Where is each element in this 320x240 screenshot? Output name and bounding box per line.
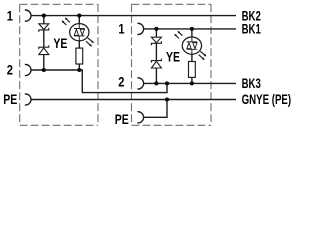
LED emission arrows bottom-right box A xyxy=(86,38,94,47)
wire net BK1 (box B pin 1 to BK1) xyxy=(144,28,236,30)
wire LED branch box A xyxy=(78,16,80,70)
wire box B PE run joining GNYE xyxy=(144,100,167,118)
wire box A pin 2 run joining BK3 xyxy=(31,70,167,93)
resistor R1 box A xyxy=(76,48,83,64)
socket contact pin 1 box A xyxy=(25,10,31,21)
wire net BK3 (box B pin 2 to BK3) xyxy=(144,82,236,84)
junction node box B pin2/resistor xyxy=(190,81,194,85)
junction node box A pin2/resistor xyxy=(77,68,81,72)
suppressor diode Z1 box A xyxy=(39,24,49,32)
box A dashed enclosure xyxy=(20,4,98,125)
junction node GNYE riser xyxy=(165,97,169,101)
socket contact PE box A xyxy=(25,94,31,105)
svg-text:PE: PE xyxy=(115,112,129,127)
svg-text:YE: YE xyxy=(53,36,67,51)
socket contact pin 2 box B xyxy=(137,78,143,89)
junction node BK3 riser xyxy=(165,81,169,85)
junction node box B pin2/diode xyxy=(154,81,158,85)
LED emission arrows bottom-right box B xyxy=(199,51,207,60)
wire net GNYE (box A PE to GNYE) xyxy=(31,99,236,101)
suppressor diode Z4 box B xyxy=(151,59,161,68)
suppressor diode Z3 box B xyxy=(151,37,161,45)
svg-text:PE: PE xyxy=(3,92,17,107)
wire diode branch box A xyxy=(43,16,45,70)
socket contact pin 2 box A xyxy=(25,64,31,75)
box B dashed enclosure xyxy=(132,4,212,125)
svg-text:1: 1 xyxy=(118,22,125,37)
wire diode branch box B xyxy=(155,29,157,84)
svg-text:2: 2 xyxy=(118,75,125,90)
junction node box B pin1/LED xyxy=(190,27,194,31)
socket contact PE box B xyxy=(137,112,143,123)
wire net BK2 (box A pin 1 to BK2) xyxy=(31,15,236,17)
resistor R2 box B xyxy=(189,62,196,78)
junction node box B pin1/diode xyxy=(154,27,158,31)
svg-text:BK1: BK1 xyxy=(242,22,262,37)
LED emission arrows top-left box B xyxy=(174,31,182,39)
svg-text:YE: YE xyxy=(166,50,180,65)
junction node box A pin1/LED xyxy=(77,14,81,18)
svg-text:GNYE (PE): GNYE (PE) xyxy=(242,92,292,107)
LED indicator U2 box B (yellow, dual antiparallel) xyxy=(182,37,201,55)
LED indicator U1 box A (yellow, dual antiparallel) xyxy=(70,23,89,41)
svg-text:2: 2 xyxy=(7,63,14,78)
junction node box A pin1/diode xyxy=(42,14,46,18)
svg-text:BK3: BK3 xyxy=(242,76,262,91)
wire LED branch box B xyxy=(191,29,193,84)
socket contact pin 1 box B xyxy=(137,23,143,34)
junction node box A pin2/diode xyxy=(42,68,46,72)
svg-text:1: 1 xyxy=(7,8,14,23)
suppressor diode Z2 box A xyxy=(39,45,49,54)
LED emission arrows top-left box A xyxy=(62,17,70,25)
